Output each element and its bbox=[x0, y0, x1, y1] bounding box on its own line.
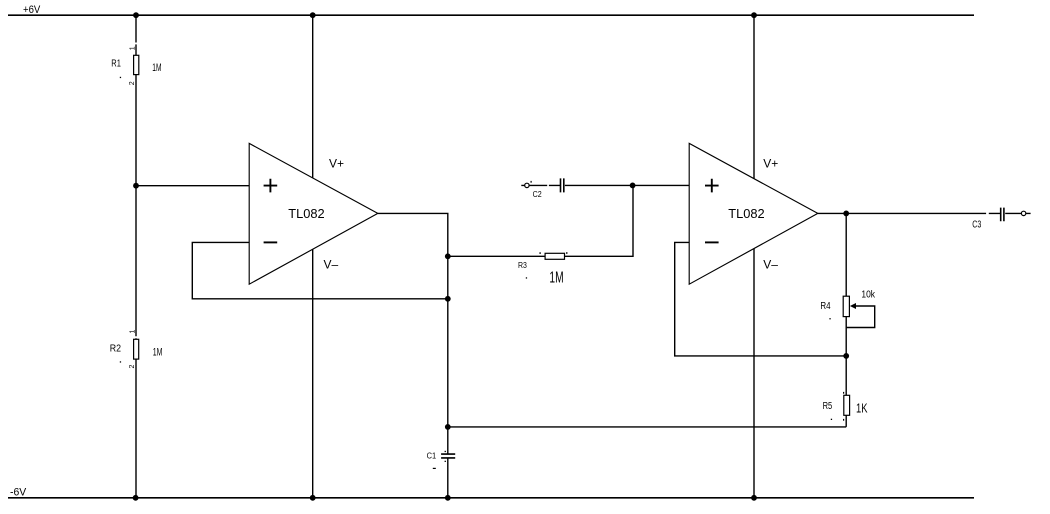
svg-text:2: 2 bbox=[129, 81, 136, 85]
svg-text:-6V: -6V bbox=[10, 487, 27, 499]
svg-text:2: 2 bbox=[129, 365, 136, 369]
svg-text:1: 1 bbox=[129, 46, 136, 50]
svg-text:R2: R2 bbox=[110, 344, 122, 355]
svg-text:TL082: TL082 bbox=[288, 206, 324, 221]
svg-text:TL082: TL082 bbox=[728, 206, 764, 221]
svg-text:+6V: +6V bbox=[23, 4, 41, 16]
svg-text:1M: 1M bbox=[549, 270, 563, 287]
svg-text:V+: V+ bbox=[329, 157, 344, 171]
svg-text:C3: C3 bbox=[972, 219, 981, 230]
svg-text:1K: 1K bbox=[856, 401, 868, 415]
svg-text:V–: V– bbox=[763, 257, 778, 271]
svg-text:1: 1 bbox=[129, 330, 136, 334]
svg-text:10k: 10k bbox=[861, 290, 875, 301]
svg-text:V+: V+ bbox=[763, 157, 778, 171]
svg-text:R4: R4 bbox=[820, 301, 831, 312]
svg-text:1M: 1M bbox=[152, 62, 161, 74]
svg-text:R3: R3 bbox=[518, 260, 527, 270]
svg-text:R1: R1 bbox=[111, 59, 121, 70]
svg-text:V–: V– bbox=[324, 258, 339, 272]
svg-text:R5: R5 bbox=[823, 401, 833, 412]
svg-text:1M: 1M bbox=[153, 347, 163, 359]
svg-text:C2: C2 bbox=[533, 189, 542, 199]
svg-text:C1: C1 bbox=[427, 450, 437, 460]
